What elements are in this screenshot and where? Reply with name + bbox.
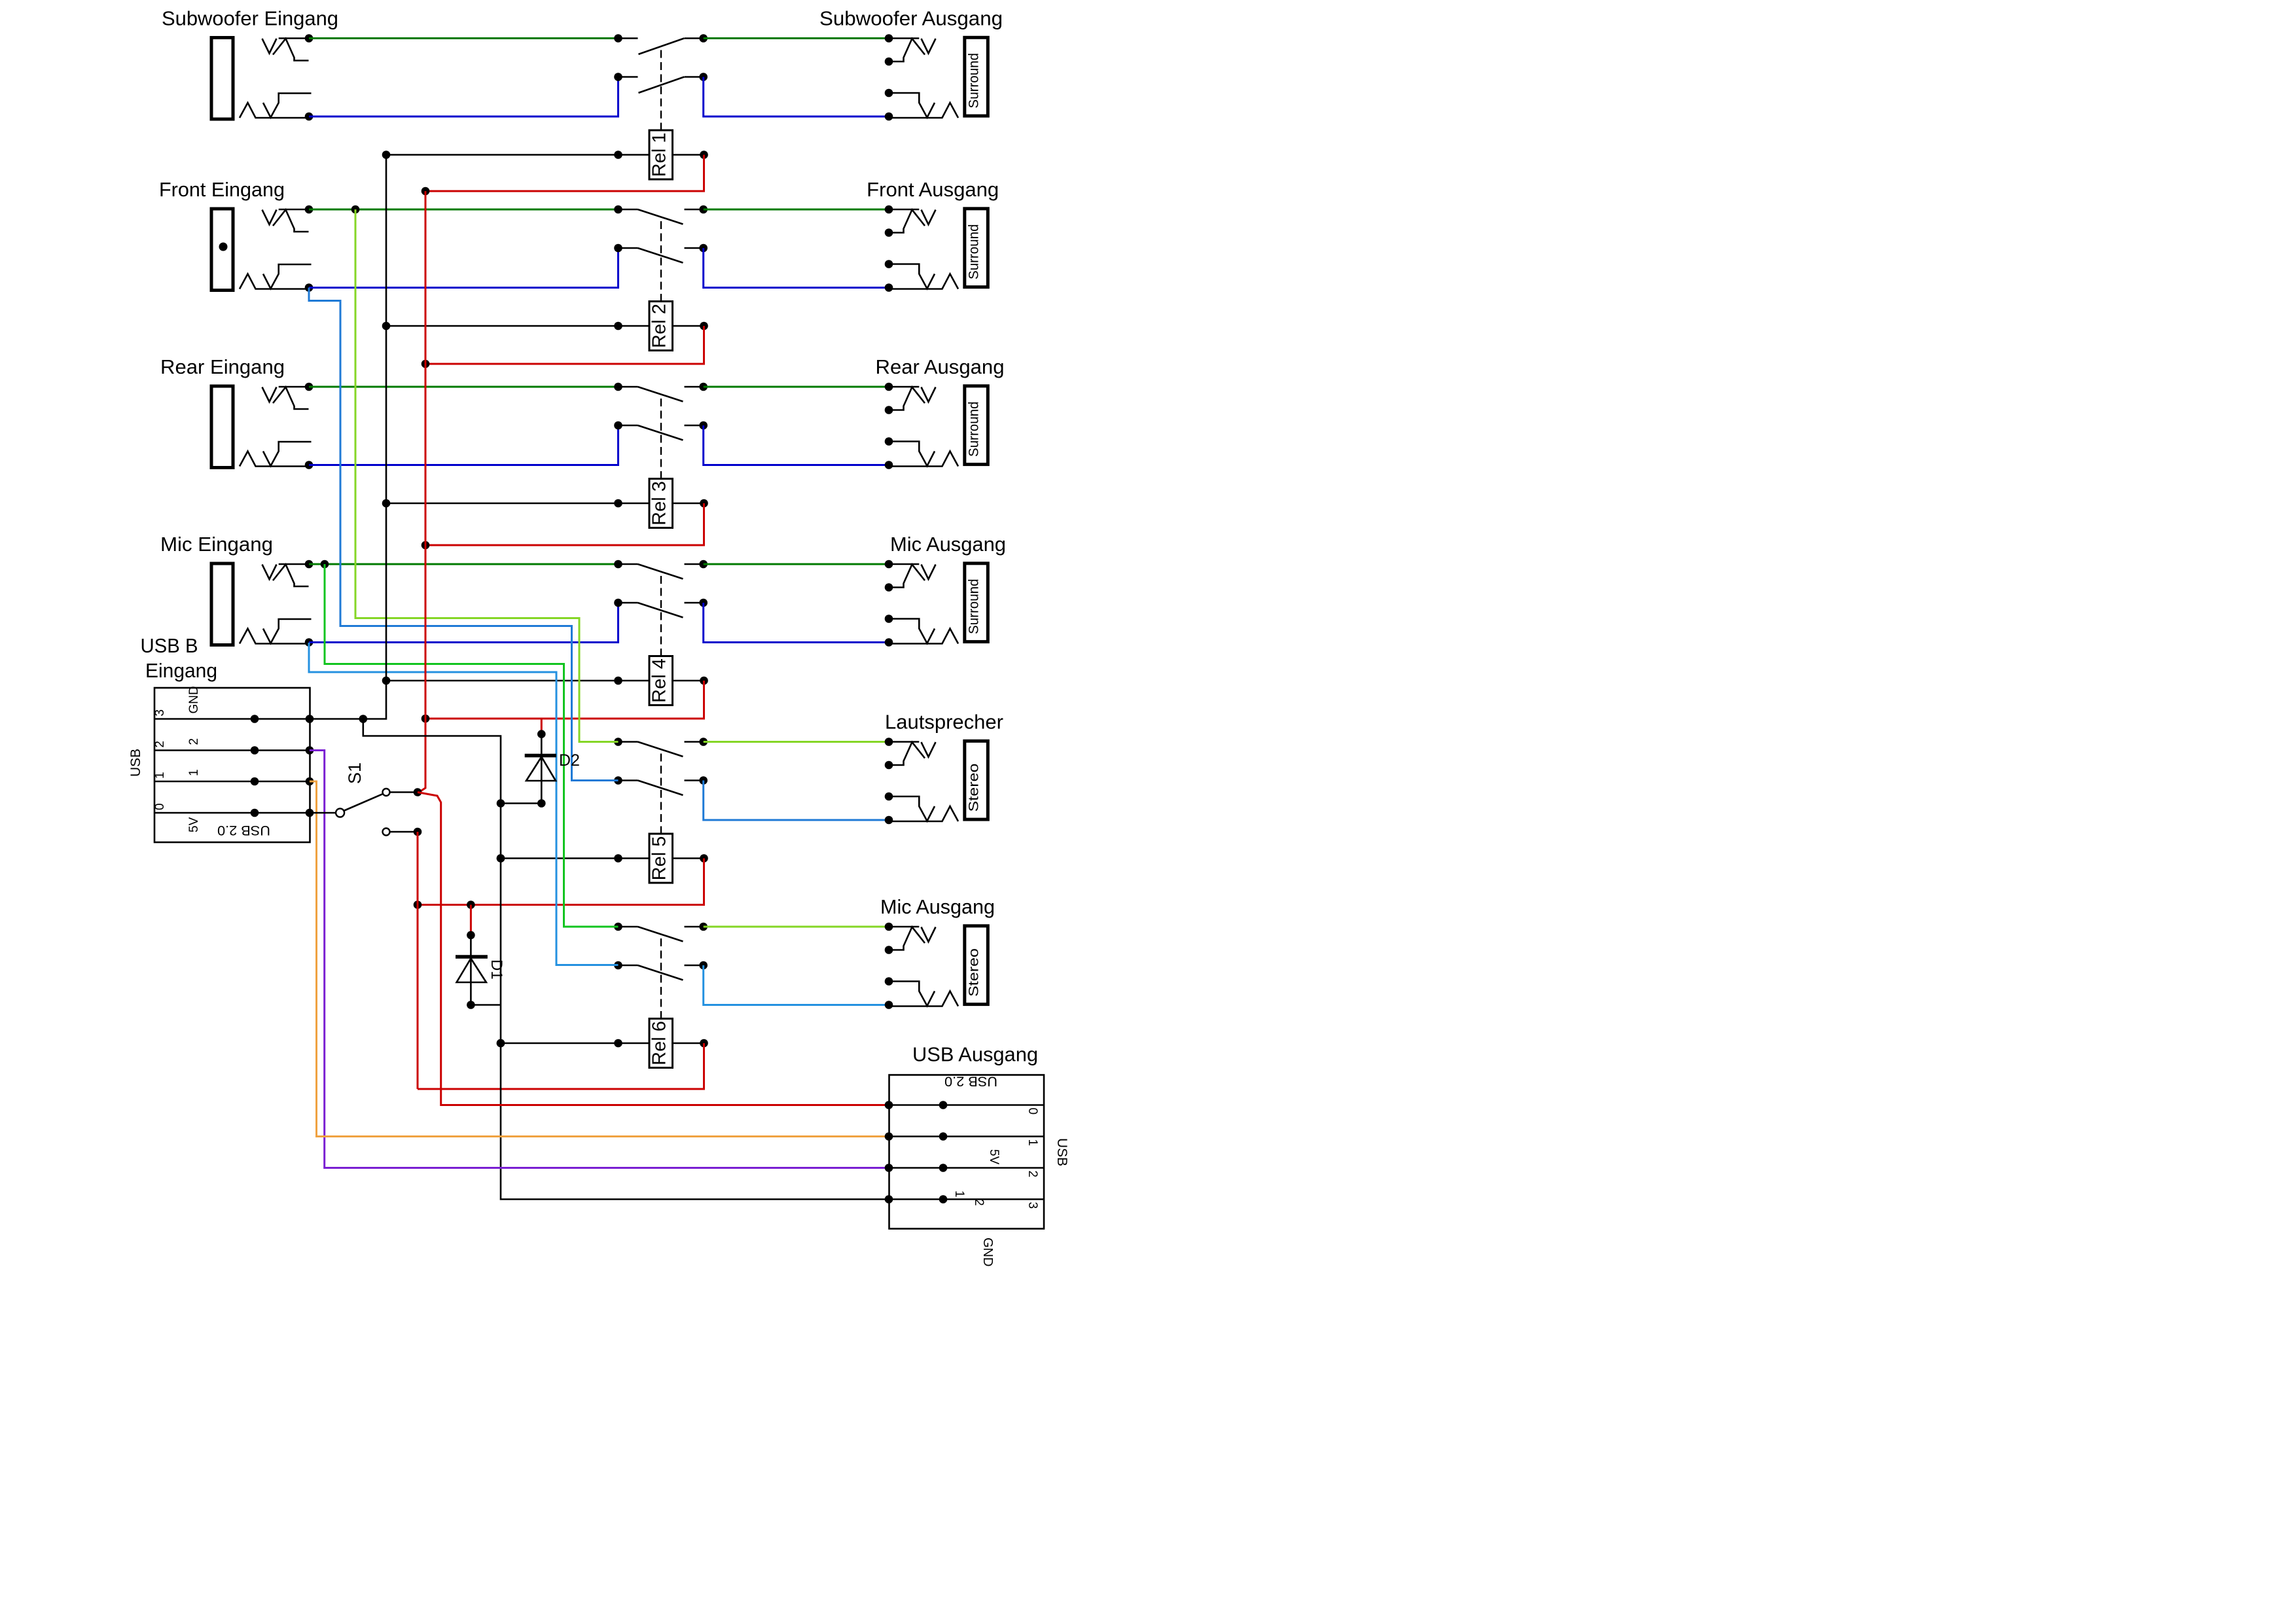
S1 throw A wire [390,791,418,793]
pin dots jack J3out Rear Ausgang [885,383,893,391]
wire red 5V to USB output [418,793,889,1105]
relay coil Rel 4 box [649,656,673,705]
svg-text:Surround: Surround [966,53,982,109]
wire tip Rear Eingang green [309,386,619,388]
relay contact Rel 6 row2 blade [638,965,683,980]
contact dots Rel 2 row1 [614,205,622,214]
relay contact Rel 4 row1 blade [638,564,683,579]
relay contact Rel 1 row2 blade [639,77,685,93]
relay Rel 5 actuation dashed link [660,754,662,835]
junction dot bus-D2 [497,799,505,808]
wire mid green mic-tip to Mic stereo contact [325,564,619,927]
relay contact Rel 3 row2 blade [638,425,683,440]
contact dots Rel 6 row1 [614,923,622,931]
relay Rel 2 actuation dashed link [660,221,662,302]
pin dot J2 Front Eingang tip [305,205,314,214]
junction dot red bus ch5 [414,901,422,909]
pin dots jack J1out Subwoofer Ausgang [885,34,893,43]
pin line USB-out 1 [889,1135,1045,1137]
svg-text:USB 2.0: USB 2.0 [944,1074,997,1090]
wire coil Rel 1 [386,154,649,156]
wire cyan mic-sleeve to Mic stereo contact [309,643,619,965]
relay Rel 6 actuation dashed link [660,938,662,1020]
coil pin dots Rel 3 [382,499,391,508]
contact dots Rel 4 row2 [614,599,622,607]
svg-text:Rel 2: Rel 2 [649,304,670,348]
svg-text:Surround: Surround [966,224,982,280]
jack J3 Rear Eingang connector body [211,386,312,468]
svg-text:5V: 5V [187,817,201,832]
relay contact Rel 5 row2 blade [638,781,683,796]
junction dot red bus ch3 [422,541,430,550]
svg-text:Surround: Surround [966,402,982,457]
svg-text:USB Ausgang: USB Ausgang [912,1044,1038,1066]
svg-text:D2: D2 [559,751,580,770]
wire sleeve out ch2 blue [704,248,889,288]
pin dots jack J5out Lautsprecher [885,738,893,746]
svg-text:Rel 5: Rel 5 [649,836,670,881]
svg-text:Rel 1: Rel 1 [649,133,670,177]
wire sleeve Rear Eingang blue [309,425,619,465]
wire tip Mic Eingang green [309,563,619,565]
svg-text:D1: D1 [488,959,505,980]
relay contact Rel 6 row1 stubs [619,926,638,928]
wire sleeve out ch1 blue [704,77,889,117]
relay contact Rel 4 row1 stubs [619,563,638,565]
wire black common bus to D2/Rel5/D1/Rel6/USB out [363,719,889,1200]
wire tip out ch1 green [704,37,889,39]
wire red stub to D1 [470,905,472,933]
pin dot J3 Rear Eingang tip [305,383,314,391]
pin line USB-B 0/5V [154,812,310,814]
svg-text:Rel 4: Rel 4 [649,658,670,703]
wire coil Rel 2 [386,325,649,327]
wire coil Rel 6 [501,1043,649,1044]
diode D1 [456,935,488,1005]
svg-text:Rel 3: Rel 3 [649,481,670,526]
junction dot red bus ch2 [422,360,430,368]
relay contact Rel 2 row2 blade [638,248,683,263]
contact dots Rel 4 row1 [614,560,622,569]
pin line USB-out 3 [889,1198,1045,1200]
wire sleeve Subwoofer Eingang blue [309,77,619,117]
pin line USB-out 0 [889,1104,1045,1106]
pin dots D2 [537,730,546,738]
wire D2 cathode to bus [501,802,541,804]
wire coil Rel 3 [386,503,649,505]
junction dot bus-Rel5 coil [497,854,505,863]
svg-text:1: 1 [153,772,167,779]
junction dot GND node [359,715,368,723]
relay contact Rel 2 row2 stubs [619,247,638,249]
relay contact Rel 1 row2 stubs [619,76,638,78]
jack J5out Lautsprecher connector body [889,741,988,821]
relay contact Rel 2 row1 stubs [619,209,638,211]
jack J6out Mic Ausgang connector body [889,926,988,1007]
svg-text:1: 1 [187,769,201,776]
wire sleeve out ch6 cyan blue [704,965,889,1005]
coil pin dots Rel 4 [382,677,391,685]
svg-text:Rel 6: Rel 6 [649,1021,670,1065]
wire purple USB data2 to output [310,751,889,1168]
svg-text:0: 0 [153,803,167,810]
junction dot red bus ch1 [422,187,430,196]
connector USB-B input box [154,688,310,842]
svg-text:Subwoofer Eingang: Subwoofer Eingang [162,8,338,30]
svg-text:0: 0 [1026,1108,1039,1115]
svg-text:GND: GND [187,686,201,713]
wire red relay Rel 3 supply [425,503,704,545]
pin line USB-B 1/1 [154,781,310,783]
relay contact Rel 5 row1 stubs [619,741,638,743]
switch S1 [310,812,337,814]
contact dots Rel 1 row1 [614,34,622,43]
svg-text:USB 2.0: USB 2.0 [217,823,270,838]
wire tip out ch4 green [704,563,889,565]
pin line USB-B 3/GND [154,718,310,720]
junction dot D2 feed on ch5 red [467,901,475,909]
pin line USB-B 2/2 [154,749,310,751]
relay contact Rel 5 row1 blade [638,742,683,757]
wire GND pin to rail [310,718,363,720]
svg-text:Subwoofer Ausgang: Subwoofer Ausgang [819,8,1003,30]
wire tip Front Eingang green [309,209,619,211]
pin dot J1 Subwoofer Eingang sleeve [305,113,314,121]
diode D2 [525,734,556,804]
wire red relay Rel 6 supply [418,1043,704,1089]
svg-text:2: 2 [187,738,201,745]
relay contact Rel 2 row1 blade [638,209,683,224]
svg-text:Rear Eingang: Rear Eingang [160,356,285,378]
relay Rel 4 actuation dashed link [660,576,662,657]
svg-text:Eingang: Eingang [145,660,217,682]
svg-text:USB: USB [1054,1138,1069,1166]
pin dots jack J4out Mic Ausgang [885,560,893,569]
relay coil Rel 2 box [649,302,673,351]
wire red supply rail from Rel1 [418,191,425,793]
wire red relay Rel 2 supply [425,326,704,364]
svg-text:Front Eingang: Front Eingang [159,179,285,201]
pin line USB-out 2 [889,1167,1045,1169]
relay Rel 1 actuation dashed link [660,50,662,132]
junction dot S1 throw A [414,788,422,796]
jack J1 Subwoofer Eingang connector body [211,38,312,120]
pin dot J4 Mic Eingang tip [305,560,314,569]
jack J2out Front Ausgang connector body [889,209,988,289]
S1 blade [344,794,383,811]
svg-text:3: 3 [153,709,167,717]
svg-text:2: 2 [153,741,167,748]
jack J1out Subwoofer Ausgang connector body [889,37,988,118]
relay contact Rel 3 row1 stubs [619,386,638,388]
svg-text:1: 1 [1026,1139,1039,1147]
svg-text:3: 3 [1026,1202,1039,1209]
svg-text:USB B: USB B [141,635,198,657]
svg-text:2: 2 [1026,1171,1039,1178]
relay contact Rel 6 row2 stubs [619,965,638,967]
relay contact Rel 6 row1 blade [638,927,683,942]
relay coil Rel 6 box [649,1019,673,1068]
svg-text:5V: 5V [987,1149,1001,1165]
svg-text:2: 2 [972,1199,986,1206]
junction dot front tip split [351,205,360,214]
relay coil Rel 3 box [649,479,673,528]
S1 throw A contact [383,789,390,796]
svg-text:GND: GND [980,1238,995,1266]
relay contact Rel 4 row2 stubs [619,602,638,604]
junction dot mic tip split [321,560,329,569]
wire red relay Rel 4 supply [425,681,704,719]
svg-text:Rear Ausgang: Rear Ausgang [876,356,1005,378]
relay contact Rel 4 row2 blade [638,603,683,618]
pin dot J1 Subwoofer Eingang tip [305,34,314,43]
jack J4 Mic Eingang connector body [211,563,312,645]
svg-text:S1: S1 [345,762,365,784]
wire coil Rel 4 [386,680,649,682]
junction dot bus-Rel6 coil [497,1039,505,1048]
contact dots Rel 1 row2 [614,73,622,81]
svg-text:Front Ausgang: Front Ausgang [867,179,999,201]
contact dots Rel 3 row2 [614,421,622,430]
S1 pole contact [336,809,344,817]
wire sleeve out ch4 blue [704,603,889,643]
wire red switched relay supply bus [417,832,419,1089]
svg-text:Stereo: Stereo [966,763,982,811]
relay contact Rel 1 row1 stubs [619,37,638,39]
wire sleeve out ch3 blue [704,425,889,465]
wire red stub to D2 [541,719,543,731]
jack J2 Front Eingang connector body [211,209,312,291]
relay coil Rel 1 box [649,130,673,179]
pin dots D1 [467,931,475,940]
wire sleeve Front Eingang blue [309,248,619,288]
wire red relay Rel 5 supply [418,859,704,905]
svg-text:Mic Ausgang: Mic Ausgang [880,896,995,918]
svg-text:Lautsprecher: Lautsprecher [885,711,1003,734]
contact dots Rel 3 row1 [614,383,622,391]
wire orange USB data1 to output [310,781,889,1137]
coil pin dots Rel 1 [382,151,391,159]
relay coil Rel 5 box [649,834,673,883]
wire sleeve Mic Eingang blue [309,603,619,643]
relay Rel 3 actuation dashed link [660,399,662,480]
wire D1 cathode to bus [471,1004,501,1006]
svg-text:Mic Ausgang: Mic Ausgang [890,533,1006,556]
svg-text:USB: USB [128,749,143,777]
wire coil Rel 5 [501,857,649,859]
svg-text:Stereo: Stereo [966,948,982,997]
contact dots Rel 5 row1 [614,738,622,746]
S1 throw B wire [390,831,418,833]
wire tip out ch5 light green [704,741,889,743]
relay contact Rel 3 row1 blade [638,387,683,402]
pin dots jack J2out Front Ausgang [885,205,893,214]
pin dot J3 Rear Eingang sleeve [305,461,314,469]
wire red relay Rel 1 supply [425,155,704,192]
coil pin dots Rel 5 [497,854,505,863]
coil pin dots Rel 6 [497,1039,505,1048]
wire light green front-tip to Lautsprecher contact [355,209,619,742]
jack J3out Rear Ausgang connector body [889,386,988,467]
junction dot S1 throw B [414,828,422,836]
jack J4out Mic Ausgang connector body [889,563,988,644]
contact dots Rel 2 row2 [614,244,622,253]
wire tip out ch2 green [704,209,889,211]
coil pin dots Rel 2 [382,322,391,330]
relay contact Rel 3 row2 stubs [619,425,638,427]
connector USB output box [889,1075,1045,1229]
junction dot red bus ch4 [422,715,430,723]
wire tip Subwoofer Eingang green [309,37,619,39]
wire sleeve out ch5 royal blue [704,781,889,821]
pin dot J4 Mic Eingang sleeve [305,638,314,647]
relay contact Rel 1 row1 blade [639,39,685,54]
svg-text:1: 1 [952,1190,966,1198]
contact dots Rel 5 row2 [614,776,622,785]
svg-text:Surround: Surround [966,579,982,635]
wire relay common rail (black) [363,155,386,719]
S1 throw B contact [383,829,390,836]
wire tip out ch6 light green [704,926,889,928]
svg-text:Mic Eingang: Mic Eingang [160,533,273,556]
relay contact Rel 5 row2 stubs [619,779,638,781]
wire tip out ch3 green [704,386,889,388]
pin dot J2 Front Eingang sleeve [305,283,314,292]
pin dots jack J6out Mic Ausgang [885,923,893,931]
contact dots Rel 6 row2 [614,961,622,970]
wire royal blue front-sleeve to Lautsprecher contact [309,288,619,781]
